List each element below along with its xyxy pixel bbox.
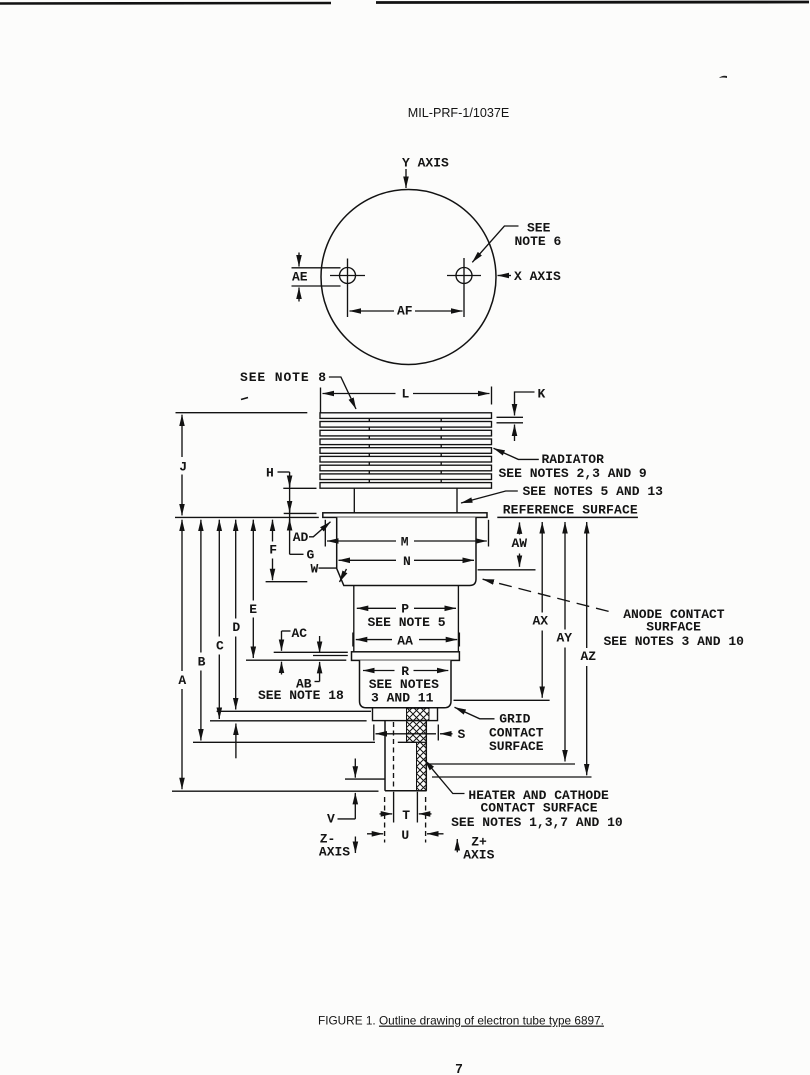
svg-text:AY: AY bbox=[557, 631, 573, 646]
auxiliary up arrow below D line bbox=[235, 724, 237, 759]
svg-text:AZ: AZ bbox=[581, 649, 597, 664]
svg-text:AXIS: AXIS bbox=[319, 845, 350, 860]
svg-text:Y AXIS: Y AXIS bbox=[402, 156, 449, 171]
dimension AE lower extension line bbox=[292, 285, 341, 287]
dimension AZ lower segment bbox=[586, 666, 588, 775]
grid contact collar bbox=[373, 708, 438, 721]
dimension U left dashed tick bbox=[384, 797, 386, 843]
svg-text:AC: AC bbox=[292, 626, 308, 641]
svg-text:AF: AF bbox=[397, 304, 413, 319]
H bracket horizontal bbox=[278, 471, 290, 473]
dimension P right arrow bbox=[414, 607, 456, 609]
radiator base cylinder left edge bbox=[353, 488, 355, 513]
svg-text:SEE NOTES 3 AND 10: SEE NOTES 3 AND 10 bbox=[604, 634, 745, 649]
svg-text:N: N bbox=[403, 554, 411, 569]
AB down arrow bbox=[319, 636, 321, 653]
svg-text:RADIATOR: RADIATOR bbox=[542, 452, 605, 467]
dimension K lower extension line bbox=[497, 422, 524, 424]
svg-text:AA: AA bbox=[397, 634, 413, 649]
dimension E up arrow bbox=[252, 520, 254, 601]
svg-text:NOTE 6: NOTE 6 bbox=[515, 234, 562, 249]
AY bottom extension line (heater cathode contact level) bbox=[427, 763, 576, 765]
crosshair right hole horizontal bbox=[447, 275, 481, 277]
radiator core right edge seen through fins bbox=[440, 418, 442, 484]
dimension AA right arrow bbox=[419, 639, 457, 641]
dimension T right tick bbox=[416, 792, 418, 823]
dimension S outer arrow bbox=[440, 733, 453, 735]
leader to note 6 bbox=[472, 226, 518, 262]
dimension AA left extension tick bbox=[352, 633, 354, 647]
X axis arrow bbox=[498, 275, 512, 277]
dimension K down arrow bbox=[514, 403, 516, 416]
radiator core left edge seen through fins bbox=[368, 418, 370, 484]
dimension K up arrow bbox=[514, 425, 516, 442]
svg-text:CONTACT SURFACE: CONTACT SURFACE bbox=[481, 801, 598, 816]
dimension C down arrow bbox=[218, 655, 220, 720]
dimension M right extension bar bbox=[488, 520, 490, 547]
radiator base cylinder right edge bbox=[456, 488, 458, 513]
svg-text:SEE NOTES 2,3 AND 9: SEE NOTES 2,3 AND 9 bbox=[499, 466, 647, 481]
stem right edge bbox=[425, 721, 427, 791]
svg-text:U: U bbox=[401, 828, 409, 843]
stem bottom edge bbox=[385, 790, 426, 792]
W leader horizontal bbox=[319, 567, 337, 569]
reference surface line extending left bbox=[175, 516, 319, 518]
dimension AX upper segment bbox=[541, 522, 543, 613]
svg-text:SEE NOTE 8: SEE NOTE 8 bbox=[240, 370, 326, 385]
svg-text:K: K bbox=[538, 387, 546, 402]
dimension N right arrow bbox=[414, 559, 474, 561]
dimension AF left arrow bbox=[350, 310, 395, 312]
dimension T left arrow bbox=[380, 813, 393, 815]
svg-text:SURFACE: SURFACE bbox=[646, 620, 701, 635]
dimension L left extension bar bbox=[320, 388, 322, 416]
svg-text:AX: AX bbox=[533, 614, 549, 629]
svg-text:GRID: GRID bbox=[499, 712, 530, 727]
leader to radiator bbox=[494, 448, 539, 459]
radiator fin 4 bbox=[320, 439, 492, 445]
stem hidden line (dashed) bbox=[393, 722, 395, 788]
svg-text:3 AND 11: 3 AND 11 bbox=[371, 691, 434, 706]
dimension F down arrow bbox=[272, 559, 274, 581]
grid body block bbox=[360, 660, 452, 707]
dimension AY lower segment bbox=[564, 648, 566, 762]
G chevron pointing up below reference line bbox=[289, 519, 291, 528]
svg-text:AW: AW bbox=[512, 536, 528, 551]
svg-text:MIL-PRF-1/1037E: MIL-PRF-1/1037E bbox=[408, 106, 510, 120]
Y axis arrow bbox=[405, 169, 407, 188]
knurled hatch lower stem bbox=[417, 742, 427, 791]
dimension U right dashed tick bbox=[425, 797, 427, 843]
radiator fin 3 bbox=[320, 430, 492, 436]
AC down arrow bbox=[281, 631, 283, 651]
AC lower extension line bbox=[246, 659, 346, 661]
dimension J top line (radiator top level) bbox=[176, 412, 308, 414]
dimension P left arrow bbox=[357, 607, 396, 609]
dimension V down arrow bbox=[354, 759, 356, 778]
scan dash artifact left of drawing bbox=[241, 398, 248, 400]
scan artifact top right bar bbox=[376, 1, 809, 4]
dimension D down arrow bbox=[235, 637, 237, 710]
svg-text:SURFACE: SURFACE bbox=[489, 739, 544, 754]
svg-text:C: C bbox=[216, 639, 224, 654]
V upper extension line bbox=[345, 778, 385, 780]
radiator fin 6 bbox=[320, 456, 492, 462]
dimension A up arrow bbox=[181, 520, 183, 671]
svg-text:S: S bbox=[458, 727, 466, 742]
dashed leader to anode contact surface bbox=[483, 579, 609, 611]
dimension AZ upper segment bbox=[586, 522, 588, 648]
dimension U left arrow bbox=[367, 833, 383, 835]
dimension M right arrow bbox=[414, 540, 487, 542]
dimension F bottom line bbox=[266, 581, 308, 583]
svg-text:X AXIS: X AXIS bbox=[514, 269, 561, 284]
dimension M left extension bar bbox=[324, 520, 326, 547]
svg-text:G: G bbox=[307, 548, 315, 563]
svg-text:REFERENCE SURFACE: REFERENCE SURFACE bbox=[503, 503, 638, 518]
radiator fin 2 bbox=[320, 422, 492, 428]
leader to note 8 bbox=[329, 377, 356, 409]
dimension AW down arrow bbox=[519, 554, 521, 567]
H chevron at flange top line bbox=[289, 503, 291, 512]
dimension AA left arrow bbox=[356, 639, 392, 641]
leader to grid contact surface bbox=[455, 707, 495, 719]
dimension AE upper extension line bbox=[292, 267, 341, 269]
H chevron at upper line bbox=[289, 478, 291, 488]
dimension C bottom line (collar bottom level) bbox=[210, 720, 367, 722]
dimension R right arrow bbox=[414, 670, 449, 672]
dimension D bottom line (grid body bottom level) bbox=[217, 710, 371, 712]
dimension E down arrow bbox=[252, 618, 254, 659]
anode contact surface extension line bbox=[478, 569, 536, 571]
dimension R left arrow bbox=[363, 670, 395, 672]
dimension L left arrow bbox=[323, 393, 396, 395]
dimension H lower extension line (flange top extended) bbox=[284, 512, 317, 514]
leader to notes 5 and 13 bbox=[461, 491, 518, 503]
svg-text:D: D bbox=[232, 620, 240, 635]
dimension T right arrow bbox=[419, 813, 432, 815]
anode lower cylinder right edge bbox=[457, 586, 459, 652]
mounting hole left bbox=[340, 268, 356, 284]
radiator fin 5 bbox=[320, 448, 492, 454]
dimension J up arrow bbox=[181, 415, 183, 457]
svg-text:AD: AD bbox=[293, 530, 309, 545]
leader from K bbox=[515, 392, 535, 403]
svg-text:L: L bbox=[402, 387, 410, 402]
radiator fin 8 bbox=[320, 474, 492, 480]
dimension B up arrow bbox=[200, 520, 202, 653]
svg-text:A: A bbox=[178, 673, 186, 688]
dimension C up arrow bbox=[218, 520, 220, 637]
dimension D up arrow bbox=[235, 520, 237, 619]
dimension AY upper segment bbox=[564, 522, 566, 630]
knurled hatch upper stem bbox=[407, 721, 427, 743]
svg-text:SEE NOTE 18: SEE NOTE 18 bbox=[258, 688, 344, 703]
dimension L right extension bar bbox=[491, 387, 493, 405]
AC upper extension line bbox=[274, 651, 348, 653]
AX bottom extension line (grid contact level) bbox=[454, 699, 550, 701]
dimension AE bottom arrow bbox=[298, 288, 300, 302]
dimension A down arrow bbox=[181, 689, 183, 789]
knurled hatch in collar bbox=[407, 708, 430, 720]
AZ bottom extension line bbox=[432, 776, 592, 778]
scan smudge top right bbox=[719, 76, 727, 78]
dimension B down arrow bbox=[200, 671, 202, 741]
svg-text:F: F bbox=[269, 543, 277, 558]
dimension F up arrow bbox=[272, 520, 274, 542]
H and G shared vertical line bbox=[289, 472, 291, 554]
svg-text:7: 7 bbox=[455, 1061, 462, 1075]
dimension J down arrow bbox=[181, 475, 183, 516]
svg-text:E: E bbox=[249, 602, 257, 617]
svg-text:V: V bbox=[327, 812, 335, 827]
radiator fin 1 bbox=[320, 413, 492, 419]
V bracket horizontal bbox=[338, 818, 356, 820]
crosshair left hole horizontal bbox=[330, 275, 365, 277]
dimension T left tick bbox=[393, 792, 395, 823]
anode lower cylinder left edge bbox=[353, 586, 355, 652]
dimension AF right arrow bbox=[415, 310, 463, 312]
dimension K upper extension line bbox=[497, 416, 524, 418]
AB bracket horizontal bbox=[315, 681, 320, 683]
leader from AD to flange corner bbox=[309, 522, 331, 537]
radiator fin 7 bbox=[320, 465, 492, 471]
dimension B bottom line bbox=[193, 741, 375, 743]
scan artifact top left bar bbox=[0, 2, 331, 5]
dimension S inner arrow bbox=[376, 733, 437, 735]
svg-text:AXIS: AXIS bbox=[463, 848, 494, 863]
svg-text:SEE NOTES 5 AND 13: SEE NOTES 5 AND 13 bbox=[523, 484, 664, 499]
AC up arrow bbox=[281, 662, 283, 675]
svg-text:FIGURE 1. Outline drawing of: FIGURE 1. Outline drawing of electron tu… bbox=[318, 1014, 604, 1028]
stem left edge bbox=[384, 721, 386, 791]
dimension AA right extension tick bbox=[458, 633, 460, 647]
G bracket horizontal bbox=[290, 553, 304, 555]
stem inner step line bbox=[398, 741, 417, 743]
crosshair left hole vertical bbox=[347, 259, 349, 318]
leader to heater and cathode contact surface bbox=[425, 760, 465, 794]
anode block body bbox=[337, 517, 476, 585]
anode flange (reference surface disc) bbox=[323, 513, 487, 518]
svg-text:J: J bbox=[179, 460, 187, 475]
underline of reference surface bbox=[497, 516, 638, 518]
svg-text:SEE NOTE 5: SEE NOTE 5 bbox=[368, 615, 446, 630]
svg-text:B: B bbox=[198, 655, 206, 670]
AC bracket horizontal bbox=[282, 630, 291, 632]
dimension AE top arrow bbox=[298, 253, 300, 267]
svg-text:SEE NOTES 1,3,7 AND 10: SEE NOTES 1,3,7 AND 10 bbox=[451, 815, 623, 830]
tube envelope circle (top view) bbox=[321, 190, 496, 365]
dimension S left tick bbox=[373, 725, 375, 741]
dimension N left arrow bbox=[339, 559, 397, 561]
crosshair right hole vertical bbox=[463, 258, 465, 317]
dimension AX lower segment bbox=[541, 631, 543, 698]
Z- axis down arrow bbox=[354, 837, 356, 854]
dimension H upper extension line bbox=[283, 487, 316, 489]
svg-text:H: H bbox=[266, 466, 274, 481]
AB upper extension line (short) bbox=[313, 655, 348, 657]
svg-text:M: M bbox=[401, 535, 409, 550]
dimension A bottom line (tube end) bbox=[172, 790, 379, 792]
dimension V up arrow bbox=[354, 793, 356, 819]
Z+ axis up arrow bbox=[456, 839, 458, 852]
svg-text:AE: AE bbox=[292, 270, 308, 285]
svg-text:T: T bbox=[402, 808, 410, 823]
mounting hole right bbox=[456, 268, 472, 284]
W leader arrow to chamfer bbox=[340, 569, 347, 582]
radiator fin 9 bbox=[320, 483, 492, 489]
AB up arrow bbox=[319, 662, 321, 682]
dimension M left arrow bbox=[327, 540, 396, 542]
dimension S right tick bbox=[437, 725, 439, 741]
svg-text:W: W bbox=[311, 562, 319, 577]
grid flange bbox=[352, 652, 460, 661]
dimension U right arrow bbox=[427, 833, 444, 835]
dimension L right arrow bbox=[413, 393, 490, 395]
dimension AW up arrow bbox=[519, 522, 521, 534]
